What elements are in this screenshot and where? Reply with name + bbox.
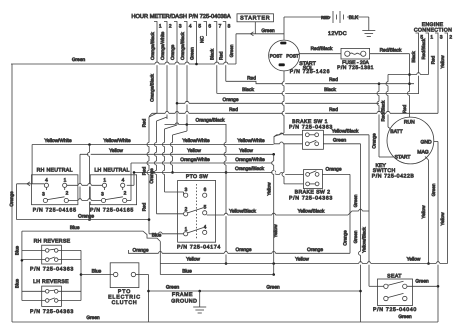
- svg-text:BATT: BATT: [390, 129, 402, 135]
- orange lower wire: [129, 250, 351, 253]
- svg-text:BLK: BLK: [349, 15, 359, 21]
- orange/white bus wire: [131, 162, 274, 164]
- svg-text:Black: Black: [324, 87, 336, 93]
- svg-text:Red: Red: [142, 166, 147, 175]
- yellow/black vertical right: [368, 135, 370, 286]
- battery 12VDC symbol: [332, 11, 334, 23]
- svg-text:START: START: [395, 155, 411, 161]
- svg-text:2: 2: [66, 190, 69, 196]
- svg-text:Black: Black: [210, 48, 215, 60]
- solenoid vertical wire down: [283, 71, 285, 133]
- svg-text:P/N 725-04040: P/N 725-04040: [373, 307, 417, 313]
- svg-text:7: 7: [219, 24, 222, 30]
- wire key switch GND green: [434, 141, 438, 143]
- red vertical wire: [148, 117, 150, 234]
- engine pin 2 wire Yellow: [447, 40, 449, 264]
- red/black wire fuse to junction: [370, 53, 410, 55]
- pin 5 wire Green: [196, 30, 198, 64]
- engine pin 3 wire Red: [437, 40, 439, 113]
- orange/black vertical right of PTO switch: [225, 124, 227, 264]
- svg-text:Orange: Orange: [371, 133, 376, 149]
- svg-text:Yellow: Yellow: [109, 148, 123, 154]
- svg-text:P/N 725-04363: P/N 725-04363: [30, 309, 74, 315]
- red/black wire to BATT: [388, 74, 429, 76]
- svg-text:Yellow: Yellow: [266, 182, 271, 196]
- orange/black bus wire: [134, 171, 271, 173]
- blue wire staircase: [22, 231, 160, 241]
- svg-text:Orange/Black: Orange/Black: [195, 118, 225, 124]
- svg-text:3: 3: [179, 24, 182, 30]
- svg-text:Yellow: Yellow: [186, 257, 200, 263]
- wire seat switch right green: [407, 285, 438, 287]
- wire RH pin2 to LH pin3: [68, 200, 101, 202]
- svg-text:Red/Black: Red/Black: [380, 48, 402, 54]
- yellow vertical wire mid: [273, 154, 275, 274]
- fuse 20A box P/N 725-1381: [341, 48, 370, 59]
- svg-text:CLUTCH: CLUTCH: [112, 300, 138, 306]
- svg-text:FRAME: FRAME: [172, 292, 193, 298]
- svg-text:Green: Green: [333, 138, 347, 144]
- svg-text:2: 2: [449, 35, 452, 41]
- svg-text:POST: POST: [270, 54, 283, 59]
- svg-text:Orange: Orange: [223, 97, 239, 103]
- svg-text:6: 6: [204, 187, 207, 193]
- svg-text:GND: GND: [420, 140, 432, 146]
- svg-text:LH REVERSE: LH REVERSE: [33, 279, 69, 285]
- engine pin 5 wire Black: [418, 40, 420, 94]
- svg-text:P/N 725-1426: P/N 725-1426: [290, 69, 330, 75]
- pin 7 wire Black: [216, 30, 218, 93]
- svg-text:Orange: Orange: [149, 168, 154, 184]
- svg-text:Orange: Orange: [133, 247, 149, 253]
- yellow/white left end vertical: [31, 145, 33, 184]
- svg-text:P/N 725-04363: P/N 725-04363: [289, 124, 333, 130]
- red/black wire solenoid to fuse: [299, 53, 341, 55]
- svg-text:RUN: RUN: [404, 120, 415, 126]
- svg-text:6: 6: [208, 24, 211, 30]
- svg-text:Black: Black: [242, 87, 254, 93]
- yellow/white bus wire: [32, 144, 274, 146]
- engine connector pins 5 1 3 2: [416, 33, 419, 40]
- brake switch 2 P/N 725-04363: [304, 170, 323, 189]
- orange/black vertical to bus: [172, 135, 174, 172]
- svg-text:Red: Red: [247, 75, 256, 81]
- pin 1 wire Orange/Black: [156, 30, 158, 113]
- svg-text:Orange/White: Orange/White: [235, 157, 265, 163]
- orange vertical wire to PTO: [156, 121, 158, 214]
- svg-text:Green: Green: [229, 44, 234, 57]
- blue vertical left of reverse switches: [21, 231, 23, 300]
- yellow/black wire from PTO pin 5: [207, 214, 348, 216]
- svg-text:Black: Black: [411, 51, 416, 63]
- start solenoid circle P/N 725-1426: [269, 40, 300, 71]
- vertical wire to PTO pin 3: [164, 129, 166, 192]
- green wire down-left of starter: [235, 34, 237, 64]
- svg-text:1: 1: [430, 35, 433, 41]
- svg-text:1: 1: [103, 177, 106, 183]
- svg-text:1: 1: [64, 177, 67, 183]
- yellow bus wire: [80, 153, 274, 155]
- svg-text:Yellow/White: Yellow/White: [103, 138, 131, 144]
- svg-text:2: 2: [124, 190, 127, 196]
- black bus wire from pin 7: [217, 92, 419, 94]
- green vertical to frame ground wire: [360, 144, 362, 322]
- svg-text:P/N 725-0422B: P/N 725-0422B: [372, 173, 415, 179]
- vertical wire left of clutch: [159, 241, 161, 274]
- svg-text:Orange/Black: Orange/Black: [180, 31, 185, 60]
- green wire from starter junction: [236, 33, 284, 35]
- svg-text:4: 4: [122, 177, 125, 183]
- blue vertical right of reverse switches: [80, 250, 82, 300]
- orange/black takeoff from pin 4: [165, 124, 227, 126]
- svg-text:Orange: Orange: [342, 230, 347, 246]
- svg-text:Yellow: Yellow: [273, 224, 278, 238]
- svg-text:Red: Red: [219, 51, 224, 60]
- red lower bus wire: [152, 112, 438, 114]
- svg-text:LH NEUTRAL: LH NEUTRAL: [94, 167, 129, 173]
- svg-text:Orange/Black: Orange/Black: [150, 31, 155, 60]
- svg-text:3: 3: [185, 187, 188, 193]
- svg-text:Green: Green: [86, 315, 100, 321]
- wire to PTO pin 3: [165, 191, 184, 193]
- svg-text:Yellow: Yellow: [407, 257, 421, 263]
- svg-text:Yellow: Yellow: [295, 257, 309, 263]
- yellow/black wire brake sw1 to seat: [323, 134, 369, 136]
- blue wire to PTO clutch: [81, 274, 113, 276]
- svg-text:Orange: Orange: [307, 247, 323, 253]
- wires reverse switches right side: [58, 249, 81, 251]
- svg-text:Orange/White: Orange/White: [180, 157, 210, 163]
- svg-text:Blue: Blue: [152, 233, 162, 239]
- pin 3 wire Orange: [176, 30, 178, 103]
- svg-text:Green: Green: [415, 279, 429, 285]
- wire red bus to START: [378, 84, 380, 157]
- svg-text:Yellow: Yellow: [440, 212, 445, 226]
- wire RH pin1 to LH pin1: [67, 184, 103, 186]
- svg-text:Red: Red: [329, 77, 338, 83]
- svg-text:Orange/Black: Orange/Black: [150, 73, 155, 102]
- svg-text:Blue: Blue: [182, 268, 192, 274]
- engine pin 1 wire Red/Black: [428, 40, 430, 75]
- svg-text:NC: NC: [199, 36, 205, 43]
- wire LH pin2 to orange/white bus: [127, 200, 131, 202]
- svg-text:Red/Black: Red/Black: [421, 38, 426, 60]
- svg-text:PTO SW: PTO SW: [186, 174, 208, 180]
- svg-text:Green: Green: [72, 57, 86, 63]
- red/black junction vertical to key switch: [409, 54, 411, 118]
- svg-text:8: 8: [228, 24, 231, 30]
- svg-text:Orange/White: Orange/White: [160, 31, 165, 60]
- svg-text:Red/Black: Red/Black: [311, 46, 333, 52]
- svg-text:Yellow: Yellow: [421, 205, 426, 219]
- pin 1 wire jog: [149, 113, 157, 117]
- svg-text:Blue: Blue: [15, 245, 20, 255]
- orange horizontal wire: [17, 219, 149, 221]
- svg-text:Yellow/Black: Yellow/Black: [298, 208, 325, 214]
- svg-text:Yellow/White: Yellow/White: [182, 138, 210, 144]
- svg-text:Yellow: Yellow: [187, 148, 201, 154]
- svg-text:4: 4: [189, 24, 192, 30]
- svg-text:P/N 725-04174: P/N 725-04174: [177, 244, 221, 250]
- svg-text:SEAT: SEAT: [387, 273, 402, 279]
- orange bus wire: [177, 102, 379, 104]
- green bottom wire: [12, 321, 438, 323]
- orange wire vertical far left: [16, 184, 18, 220]
- svg-text:4: 4: [45, 177, 48, 183]
- svg-text:POST: POST: [286, 54, 299, 59]
- svg-text:P/N 725-1381: P/N 725-1381: [337, 65, 374, 71]
- yellow/white junction vertical: [89, 145, 91, 220]
- svg-text:3: 3: [42, 191, 45, 197]
- svg-text:Green: Green: [353, 194, 358, 207]
- svg-text:GROUND: GROUND: [171, 298, 197, 304]
- svg-text:Orange: Orange: [9, 191, 14, 207]
- wire clutch to green net: [136, 274, 149, 276]
- svg-text:Green: Green: [189, 47, 194, 60]
- svg-text:P/N 725-04363: P/N 725-04363: [30, 267, 74, 273]
- svg-text:P/N 725-04165: P/N 725-04165: [33, 208, 77, 214]
- svg-text:Green: Green: [166, 285, 180, 291]
- svg-text:Red: Red: [431, 55, 436, 64]
- battery positive wire: [283, 17, 285, 40]
- yellow bus left vertical: [79, 154, 81, 200]
- hour meter connector pins 1-8: [154, 22, 157, 31]
- svg-text:STARTER: STARTER: [240, 16, 270, 22]
- svg-text:Red: Red: [329, 107, 338, 113]
- svg-text:RED: RED: [321, 15, 330, 20]
- wire to PTO pin 1: [149, 233, 184, 235]
- svg-text:2: 2: [169, 24, 172, 30]
- svg-text:Orange: Orange: [326, 166, 342, 172]
- pin 3 wire jog: [176, 103, 178, 125]
- svg-text:HOUR METER/DASH P/N 725-04038A: HOUR METER/DASH P/N 725-04038A: [131, 13, 230, 20]
- red bus wire from pin 8: [226, 81, 414, 83]
- orange/black bus jog to brake switch 1... wire: [271, 172, 277, 174]
- PTO electric clutch box: [110, 263, 139, 288]
- wire starter to green node: [254, 22, 256, 34]
- svg-text:Blue: Blue: [92, 268, 102, 274]
- svg-text:Orange: Orange: [170, 44, 175, 60]
- svg-text:Red: Red: [229, 107, 238, 113]
- pin 8 wire Red: [225, 30, 227, 81]
- pin 4 wire Orange/Black: [186, 30, 188, 124]
- wire LH pin4 to orange/black bus: [127, 184, 134, 186]
- svg-text:Yellow/Black: Yellow/Black: [332, 129, 359, 135]
- svg-text:4: 4: [204, 224, 207, 230]
- svg-text:Red: Red: [142, 202, 147, 211]
- svg-text:5: 5: [198, 24, 201, 30]
- svg-text:Yellow/Black: Yellow/Black: [229, 208, 256, 214]
- svg-text:RH NEUTRAL: RH NEUTRAL: [37, 167, 73, 173]
- pin 2 wire Orange/White: [166, 30, 168, 119]
- wire seat switch left: [369, 285, 384, 287]
- solenoid bottom post: [279, 63, 285, 66]
- svg-text:3: 3: [101, 191, 104, 197]
- wires reverse switches left side: [22, 249, 46, 251]
- svg-text:P/N 725-04363: P/N 725-04363: [289, 195, 333, 201]
- svg-text:Yellow: Yellow: [239, 148, 253, 154]
- blue wire to yellow vertical: [160, 274, 273, 276]
- svg-text:P/N 725-04165: P/N 725-04165: [90, 208, 134, 214]
- wire to PTO pin 2: [157, 213, 184, 215]
- svg-text:Yellow: Yellow: [440, 55, 445, 69]
- svg-text:Green: Green: [353, 230, 358, 243]
- svg-text:Red: Red: [402, 104, 407, 113]
- wire RH pin4 to left: [17, 183, 45, 185]
- svg-text:Yellow/White: Yellow/White: [237, 138, 265, 144]
- svg-text:Green: Green: [398, 314, 412, 320]
- svg-text:Green: Green: [266, 285, 280, 291]
- svg-text:12VDC: 12VDC: [328, 31, 347, 37]
- wire key switch MAG yellow: [428, 160, 430, 264]
- green wire brake sw1 row2: [323, 143, 360, 145]
- svg-text:Yellow/White: Yellow/White: [44, 138, 72, 144]
- svg-text:Blue: Blue: [15, 278, 20, 288]
- solenoid branch to brake sw2 row2: [283, 144, 285, 184]
- svg-text:1: 1: [159, 24, 162, 30]
- battery ground symbol: [362, 30, 375, 32]
- svg-text:Red/Black: Red/Black: [380, 100, 385, 122]
- solenoid top post: [280, 42, 286, 45]
- svg-text:Green: Green: [261, 28, 275, 34]
- pin 4 wire jog: [186, 124, 188, 131]
- key switch circle P/N 725-0422B: [387, 117, 434, 164]
- yellow lower wire: [160, 263, 447, 265]
- svg-text:Red: Red: [142, 118, 147, 127]
- svg-text:RH REVERSE: RH REVERSE: [34, 238, 71, 244]
- svg-text:Green: Green: [431, 183, 436, 196]
- green bus left vertical: [11, 64, 13, 322]
- battery negative wire to ground: [347, 16, 369, 18]
- green bus wire upper left: [11, 63, 236, 65]
- svg-text:Orange: Orange: [78, 213, 94, 219]
- svg-text:Yellow/Black: Yellow/Black: [361, 226, 366, 252]
- green wire to frame ground: [149, 290, 361, 292]
- svg-text:5: 5: [204, 204, 207, 210]
- wire brake sw1 row1 left: [277, 134, 303, 136]
- svg-text:Orange/Black: Orange/Black: [235, 166, 265, 172]
- wire brake sw1 row2 left: [274, 143, 303, 145]
- pin 6 NC stub: [206, 30, 208, 36]
- svg-text:MAG: MAG: [417, 150, 429, 156]
- svg-text:Orange: Orange: [236, 247, 252, 253]
- orange wire brake sw2 row1: [322, 173, 350, 175]
- pin 2 wire jog: [157, 117, 168, 121]
- svg-text:Blue: Blue: [70, 225, 80, 231]
- starter box: [237, 14, 274, 22]
- orange vertical right: [349, 174, 351, 253]
- svg-text:3: 3: [440, 35, 443, 41]
